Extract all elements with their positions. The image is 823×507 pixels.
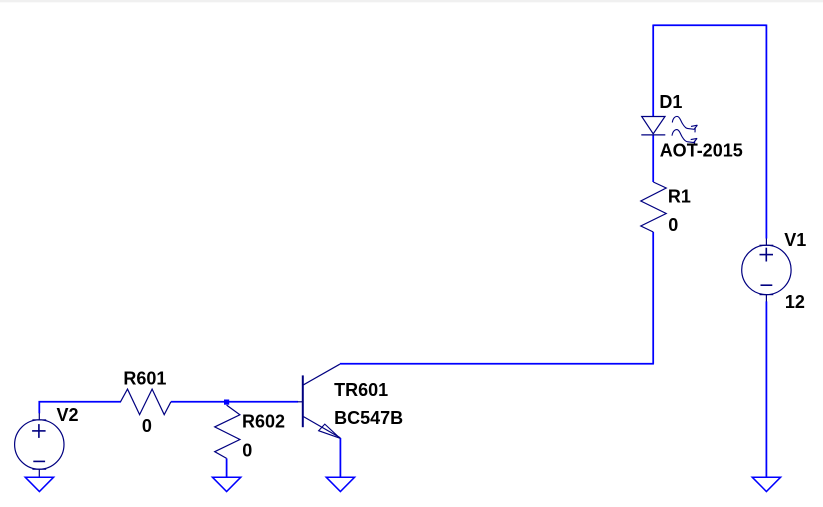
ground under TR601 emitter (326, 477, 354, 491)
wire: R602 bottom to ground (226, 458, 228, 477)
svg-text:0: 0 (242, 440, 252, 460)
top window border strip (0, 0, 823, 3)
wire: V1 bottom to ground (765, 301, 767, 477)
label R602 value 0 (242, 440, 252, 460)
wire: top horizontal rail (653, 24, 766, 26)
svg-text:AOT-2015: AOT-2015 (660, 141, 743, 161)
wire: D1 cathode to R1 (652, 135, 654, 182)
label V2 (57, 405, 79, 425)
ground under V1 (752, 477, 780, 491)
wire: V2 top lead and corner (39, 402, 121, 413)
label V1 value 12 (785, 292, 805, 312)
label BC547B (334, 408, 403, 428)
voltage source V1 (742, 238, 791, 301)
label R601 (123, 369, 166, 389)
wire: TR601 emitter to ground (339, 438, 341, 477)
svg-text:R1: R1 (668, 186, 691, 206)
ground under R602 (212, 477, 240, 491)
resistor R602 (215, 405, 240, 458)
svg-text:R602: R602 (242, 412, 285, 432)
svg-text:R601: R601 (123, 369, 166, 389)
wire: R1 bottom vertical to collector level (652, 232, 654, 364)
resistor R601 (121, 389, 171, 415)
label R1 value 0 (668, 215, 678, 235)
wire: R601 to base (through node) (171, 401, 298, 403)
D1 light-emission arrow lower (672, 130, 697, 146)
voltage source V2 (15, 413, 64, 477)
resistor R1 (641, 182, 666, 232)
svg-text:BC547B: BC547B (334, 408, 403, 428)
wire: D1 anode vertical (652, 25, 654, 117)
label AOT-2015 (660, 141, 743, 161)
svg-text:12: 12 (785, 292, 805, 312)
svg-text:0: 0 (668, 215, 678, 235)
wire: V1 top vertical (765, 25, 767, 239)
transistor TR601 (NPN) (298, 364, 341, 438)
ground under V2 (25, 477, 53, 491)
label D1 (659, 92, 682, 112)
svg-text:D1: D1 (659, 92, 682, 112)
label R601 value 0 (142, 416, 152, 436)
svg-text:V2: V2 (57, 405, 79, 425)
svg-text:V1: V1 (784, 230, 806, 250)
D1 light-emission arrow upper (672, 116, 697, 132)
svg-text:0: 0 (142, 416, 152, 436)
label V1 (784, 230, 806, 250)
label R1 (668, 186, 691, 206)
node junction square (224, 400, 229, 405)
label TR601 (334, 380, 388, 400)
diode D1 (LED) (641, 117, 665, 135)
label R602 (242, 412, 285, 432)
svg-text:TR601: TR601 (334, 380, 388, 400)
wire: horizontal run to TR601 collector (340, 363, 654, 365)
